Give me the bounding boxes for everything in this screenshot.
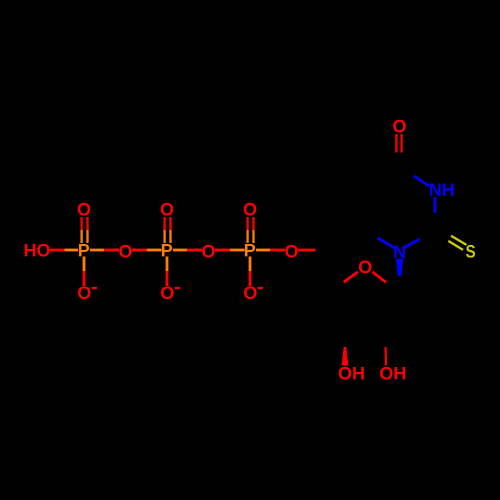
bond C5'-C4' (carbon-carbon, black)	[332, 250, 335, 290]
bond P2-Obridge2	[173, 249, 202, 252]
atom O- (P1 anionic oxygen with charge)	[78, 286, 91, 299]
wedge bond C3'-OH (solid stereo wedge)	[342, 347, 349, 366]
double bond C4=O (carbonyl)	[396, 134, 401, 153]
bond Oring-C1'	[372, 272, 386, 283]
double bond P2=O	[165, 217, 171, 243]
atom O (P3 oxo oxygen)	[244, 203, 257, 216]
bond Obridge3-C5' (ester linkage)	[298, 249, 316, 252]
bond P3-O(-)	[249, 257, 252, 287]
atom N3 with hydrogen (NH)	[430, 183, 454, 195]
atom O (bridging oxygen 2)	[202, 245, 215, 258]
bond N1-C2	[403, 239, 420, 249]
bond P3-Obridge3	[256, 249, 285, 252]
atom S (thione sulfur)	[466, 245, 475, 258]
atom N1 (ring nitrogen)	[394, 246, 405, 258]
bond C2'-C3' (carbon-carbon, black)	[345, 326, 385, 329]
atom O (ribose ring oxygen)	[359, 261, 372, 274]
atom O (bridging oxygen 3)	[285, 245, 298, 258]
bond N1-C6	[377, 238, 394, 248]
double bond P3=O	[248, 217, 254, 243]
atom O (P1 oxo oxygen)	[78, 203, 91, 216]
atom O (bridging oxygen 1)	[119, 245, 132, 258]
bond C3'-C4' (carbon-carbon, black)	[333, 290, 345, 327]
bond C1'-C2' (carbon-carbon, black)	[385, 290, 397, 327]
atom P1 (phosphorus)	[79, 244, 89, 256]
label OH (2' hydroxyl)	[380, 367, 405, 380]
double bond C2=S (thione)	[448, 236, 466, 250]
bond P1-Obridge1	[90, 249, 119, 252]
bond Oring-C4'	[344, 272, 358, 283]
bond C2'-OH	[384, 347, 387, 366]
bond C6=C5 (carbon-carbon double, black)	[363, 190, 365, 230]
bond P2-O(-)	[166, 257, 169, 287]
atom P2 (phosphorus)	[162, 244, 172, 256]
bond C4-N3	[414, 176, 429, 186]
atom O (P2 oxo oxygen)	[161, 203, 174, 216]
bond C5-C4 (carbon-carbon, black)	[364, 170, 399, 190]
bond Obridge1-P2	[132, 249, 162, 252]
label OH (3' hydroxyl)	[339, 367, 364, 380]
label HO (terminal hydroxyl on gamma-phosphate)	[25, 244, 50, 257]
bond HO-P1	[50, 249, 78, 252]
double bond P1=O	[82, 217, 88, 243]
bond P1-O(-)	[83, 257, 86, 287]
atom O- (P2 anionic oxygen with charge)	[161, 286, 174, 299]
atom P3 (phosphorus)	[245, 244, 255, 256]
bond N3-C2	[434, 197, 437, 213]
atom O- (P3 anionic oxygen with charge)	[244, 286, 257, 299]
atom O (C4 carbonyl oxygen)	[393, 120, 406, 133]
bond Obridge2-P3	[215, 249, 245, 252]
wedge bond C1'-N1 (solid stereo wedge, glycosidic)	[396, 259, 403, 276]
